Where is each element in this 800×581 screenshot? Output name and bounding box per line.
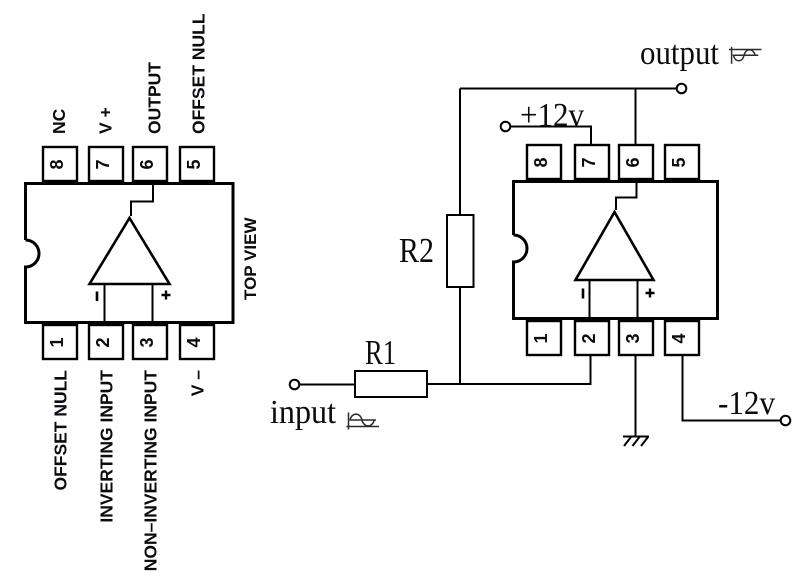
input sine icon <box>347 413 380 430</box>
right IC op-amp triangle <box>576 212 654 280</box>
left IC pin 1 <box>43 325 77 359</box>
svg-text:V +: V + <box>96 107 116 134</box>
svg-text:4: 4 <box>184 337 204 347</box>
wire output net horizontal <box>460 88 677 90</box>
left IC wire inverting input to pin 2 <box>104 284 106 323</box>
left IC op-amp triangle <box>90 218 170 284</box>
left IC pin 6 <box>133 147 167 181</box>
svg-text:5: 5 <box>184 159 204 169</box>
resistor R2 <box>447 215 474 287</box>
svg-text:4: 4 <box>669 333 689 343</box>
left IC pin 8 <box>43 147 77 181</box>
svg-text:1: 1 <box>531 333 551 343</box>
left IC pin 2 <box>89 325 123 359</box>
right IC minus label <box>582 289 585 299</box>
right IC plus label <box>646 289 655 298</box>
right IC pin 3 <box>619 321 653 355</box>
left IC body U1 (DIP-8 outline with notch) <box>26 184 234 323</box>
svg-text:input: input <box>270 394 337 431</box>
svg-text:NC: NC <box>49 108 69 134</box>
left IC pin 7 <box>89 147 123 181</box>
svg-text:TOP VIEW: TOP VIEW <box>241 217 260 300</box>
svg-text:-12v: -12v <box>718 385 775 422</box>
right IC pin 7 <box>575 145 609 179</box>
left IC pin 3 <box>133 325 167 359</box>
right IC pin 5 <box>665 145 699 179</box>
left IC plus label <box>162 291 171 300</box>
svg-text:output: output <box>640 35 719 72</box>
svg-text:3: 3 <box>137 337 157 347</box>
wire pin 3 to ground <box>635 355 637 437</box>
wire input to R1 <box>299 384 355 386</box>
input terminal circle <box>290 380 300 390</box>
svg-text:R2: R2 <box>399 231 434 270</box>
svg-text:6: 6 <box>137 159 157 169</box>
wire R2 bottom to feedback node <box>459 287 461 384</box>
svg-text:8: 8 <box>531 157 551 167</box>
+12v terminal circle <box>501 122 511 132</box>
svg-text:2: 2 <box>93 337 113 347</box>
svg-text:OFFSET NULL: OFFSET NULL <box>188 13 208 134</box>
ground symbol <box>623 437 649 447</box>
left IC minus label <box>96 292 99 302</box>
svg-text:6: 6 <box>623 157 643 167</box>
right IC wire pin6 to op-amp output <box>616 181 637 210</box>
svg-text:7: 7 <box>93 159 113 169</box>
right IC pin 1 <box>527 321 561 355</box>
svg-text:R1: R1 <box>365 333 396 372</box>
wire R1 to pin 2 <box>427 355 591 384</box>
right IC body U2 (DIP-8 outline with notch) <box>514 182 718 319</box>
right IC pin 8 <box>527 145 561 179</box>
right IC wire inverting input to pin 2 <box>589 280 591 319</box>
svg-text:2: 2 <box>579 333 599 343</box>
output terminal circle <box>677 84 687 94</box>
svg-text:5: 5 <box>669 157 689 167</box>
left IC pin 5 <box>180 147 214 181</box>
wire output net vertical to pin 6 <box>635 89 637 146</box>
left IC pin 4 <box>180 325 214 359</box>
wire pin 4 to -12v terminal <box>683 355 781 421</box>
right IC pin 6 <box>619 145 653 179</box>
svg-text:7: 7 <box>579 157 599 167</box>
svg-text:OFFSET NULL: OFFSET NULL <box>51 370 71 491</box>
svg-text:8: 8 <box>47 159 67 169</box>
right IC pin 4 <box>665 321 699 355</box>
svg-text:INVERTING INPUT: INVERTING INPUT <box>97 370 117 523</box>
svg-text:3: 3 <box>623 333 643 343</box>
right IC wire non-inverting input to pin 3 <box>637 280 639 319</box>
wire output net vertical to R2 top <box>459 89 461 216</box>
svg-text:OUTPUT: OUTPUT <box>145 62 165 134</box>
left IC wire pin6 to op-amp output <box>131 184 153 216</box>
svg-text:+12v: +12v <box>520 97 584 134</box>
svg-text:V –: V – <box>188 370 208 397</box>
svg-text:1: 1 <box>47 337 67 347</box>
resistor R1 <box>355 371 427 397</box>
right IC pin 2 <box>575 321 609 355</box>
wire +12v to pin 7 <box>510 127 591 146</box>
svg-text:NON–INVERTING INPUT: NON–INVERTING INPUT <box>141 370 161 572</box>
output sine icon <box>729 47 762 64</box>
-12v terminal circle <box>781 416 791 426</box>
left IC wire non-inverting input to pin 3 <box>152 284 154 323</box>
